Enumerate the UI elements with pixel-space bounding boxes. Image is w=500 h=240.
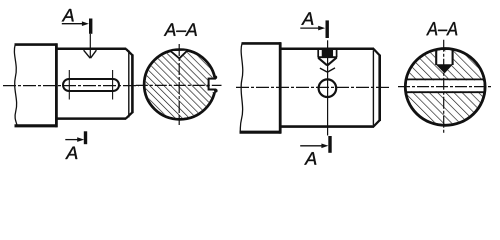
- shaft 1: keyway slot (stadium): [63, 79, 119, 91]
- section line A top (shaft 2): thick trace stroke: [326, 20, 329, 38]
- section line A bottom (shaft 2): thick trace stroke: [328, 136, 331, 153]
- shaft 1: large diameter body: [15, 43, 58, 127]
- section line A (bottom): thick trace stroke: [84, 131, 87, 144]
- shaft 2: end chamfer: [373, 49, 379, 127]
- shaft 1: break (wavy) line: [14, 45, 17, 126]
- section line A bottom (shaft 2): view arrow: [300, 144, 328, 149]
- section A-A (right): horizontal centerline: [398, 86, 493, 88]
- section A-A (right): cross-hole band: [404, 79, 487, 92]
- section A-A (left): hatching: [140, 45, 220, 125]
- shaft 2: break (wavy) line: [240, 43, 243, 132]
- slot end tangent lines: [69, 70, 112, 100]
- shaft 1: small diameter body: [56, 49, 126, 119]
- section A-A (right): conical recess below pocket: [436, 64, 453, 73]
- section line A (top): thick trace stroke: [89, 19, 92, 34]
- shaft 2: drilled pocket (counterbore walls): [318, 49, 336, 57]
- section A-A (right): shaft cross-section circle: [405, 49, 485, 126]
- section A-A (right): title: [426, 22, 437, 35]
- section line A (top): label: [62, 9, 74, 21]
- section A-A (right): hatching: [402, 45, 490, 129]
- shaft 1: end chamfer: [126, 49, 133, 119]
- section A-A (left): horizontal centerline: [136, 84, 222, 86]
- shaft 2 axis centerline: [236, 86, 390, 88]
- shaft 2: pocket bottom line: [318, 56, 338, 58]
- section A-A (left): shaft cross-section circle: [144, 50, 215, 120]
- shaft 2: vertical centerline through features: [327, 40, 329, 135]
- section line A (bottom): label: [65, 147, 77, 159]
- section line A top (shaft 2): view arrow: [300, 26, 325, 31]
- shaft 1 axis centerline: [3, 85, 139, 87]
- shaft 2: cross hole: [319, 79, 337, 97]
- shaft 2: large diameter body: [240, 42, 282, 133]
- shaft 2: small diameter body: [280, 49, 374, 127]
- cutting plane arrow piercing shaft 1: [84, 34, 97, 58]
- section A-A (left): title: [164, 23, 176, 35]
- shaft 2: pocket inner bore (dark): [323, 50, 332, 57]
- section A-A (left): vertical centerline: [178, 44, 180, 125]
- section A-A (left): keyway notch: [209, 76, 221, 93]
- section A-A (left): conical recess (V notch): [171, 51, 188, 59]
- section A-A (right): vertical centerline: [443, 40, 445, 133]
- cutting plane arrow piercing shaft 2: [320, 68, 335, 72]
- section line A bottom (shaft 2): label: [304, 152, 316, 164]
- section A-A (right): keyway/pocket notch: [435, 50, 453, 65]
- section line A (top): view arrow: [62, 21, 89, 26]
- section line A (bottom): view arrow: [65, 137, 84, 142]
- shaft 2: pocket conical bottom: [318, 58, 336, 66]
- section line A top (shaft 2): label: [301, 12, 313, 24]
